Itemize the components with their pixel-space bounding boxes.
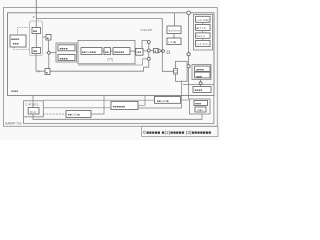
svg-text:■■■■: ■■■■ — [11, 37, 19, 41]
svg-text:■■■■: ■■■■ — [60, 47, 68, 51]
svg-text:■■01■■■: ■■01■■■ — [82, 50, 96, 54]
svg-text:■■■■: ■■■■ — [11, 90, 18, 93]
svg-text:(77): (77) — [108, 58, 114, 62]
svg-text:■■100■: ■■100■ — [157, 99, 169, 103]
svg-text:M-U: M-U — [30, 110, 36, 114]
svg-text:■■■■■: ■■■■■ — [114, 50, 124, 54]
svg-text:■(7+1): ■(7+1) — [197, 26, 207, 30]
svg-text:■■■: ■■■ — [195, 102, 201, 106]
svg-text:■■: ■■ — [137, 50, 141, 54]
svg-text:■■: ■■ — [33, 29, 37, 33]
svg-text:■: ■ — [46, 70, 48, 74]
svg-text:U■U: U■U — [197, 108, 204, 112]
svg-text:■■■■: ■■■■ — [60, 56, 68, 60]
svg-text:■■: ■■ — [33, 49, 37, 53]
svg-text:C-P3/E3: C-P3/E3 — [26, 102, 39, 106]
svg-text:(+1-6/1): (+1-6/1) — [197, 42, 209, 46]
svg-text:GAMP-7xx: GAMP-7xx — [5, 122, 22, 126]
svg-text:■■■: ■■■ — [196, 74, 202, 78]
svg-text:■■100■: ■■100■ — [68, 113, 80, 117]
svg-text:■■■■■■: ■■■■■■ — [113, 104, 125, 108]
svg-text:■: ■ — [47, 36, 49, 40]
svg-text:Rev.2: Rev.2 — [197, 34, 206, 38]
svg-text:C/10.2/P: C/10.2/P — [141, 28, 153, 32]
svg-text:©■■■■■ ■(2)■■■■■ (3)■■■■■■■: ©■■■■■ ■(2)■■■■■ (3)■■■■■■■ — [143, 129, 212, 135]
svg-text:■■■■: ■■■■ — [195, 88, 203, 92]
svg-text:(-6)■: (-6)■ — [168, 40, 176, 44]
svg-text:■■■: ■■■ — [13, 42, 19, 46]
svg-text:Softime: Softime — [168, 28, 180, 32]
svg-text:■■■■: ■■■■ — [196, 67, 204, 71]
svg-text:x: x — [32, 15, 35, 19]
svg-text:■■: ■■ — [105, 50, 109, 54]
svg-text:(+C-6/E): (+C-6/E) — [197, 18, 210, 22]
svg-text:■: ■ — [155, 50, 157, 53]
